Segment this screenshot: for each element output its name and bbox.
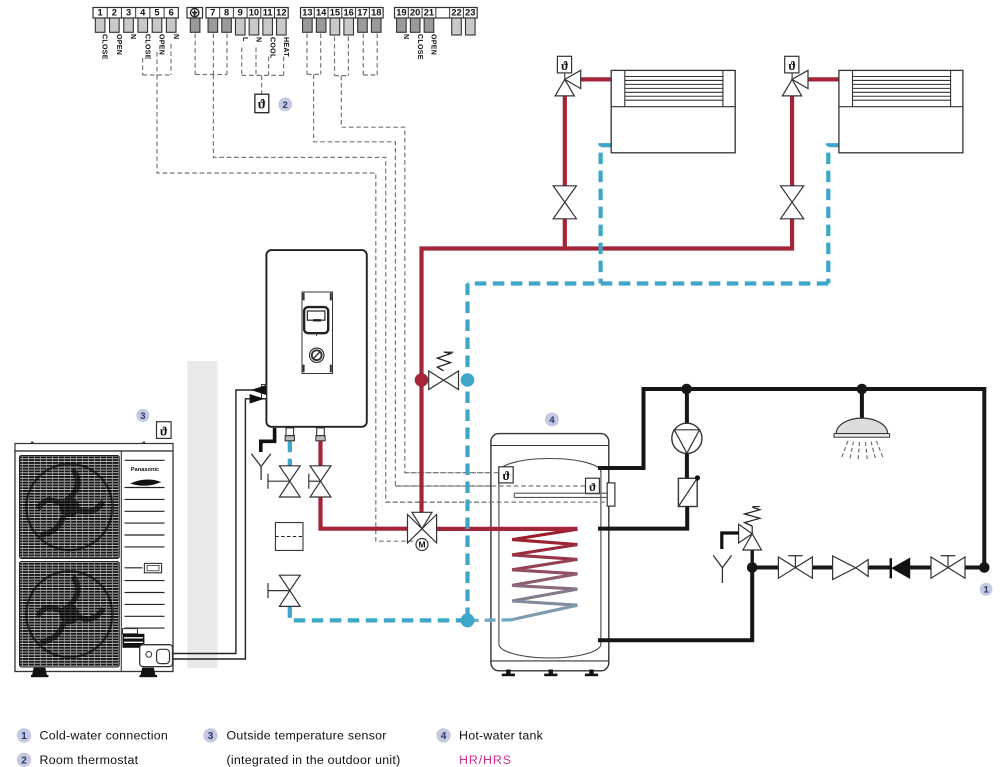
svg-text:3: 3 [126,8,131,18]
svg-text:N: N [172,34,179,39]
svg-text:HR/HRS: HR/HRS [459,753,512,767]
svg-text:5: 5 [154,8,159,18]
svg-text:ϑ: ϑ [502,469,510,483]
svg-text:8: 8 [224,8,229,18]
svg-text:4: 4 [549,415,555,426]
svg-text:1: 1 [98,8,103,18]
svg-text:N: N [402,34,409,39]
svg-text:11: 11 [263,8,273,18]
svg-text:OPEN: OPEN [158,34,165,55]
svg-text:1: 1 [21,731,27,742]
svg-text:12: 12 [276,8,286,18]
svg-text:19: 19 [396,8,406,18]
svg-text:3: 3 [208,731,214,742]
svg-text:CLOSE: CLOSE [101,34,108,60]
svg-text:ϑ: ϑ [561,59,569,73]
svg-text:2: 2 [283,100,288,111]
svg-text:(integrated in the outdoor uni: (integrated in the outdoor unit) [227,753,401,767]
svg-text:2: 2 [112,8,117,18]
svg-text:7: 7 [210,8,215,18]
svg-text:1: 1 [983,585,989,596]
svg-text:3: 3 [140,411,145,422]
svg-text:CLOSE: CLOSE [143,34,150,60]
svg-text:HEAT: HEAT [282,37,289,57]
svg-text:13: 13 [302,8,312,18]
svg-text:Cold-water connection: Cold-water connection [40,729,169,743]
svg-text:6: 6 [169,8,174,18]
svg-text:16: 16 [344,8,354,18]
svg-text:9: 9 [238,8,243,18]
svg-text:Hot-water tank: Hot-water tank [459,729,544,743]
svg-text:4: 4 [441,731,447,742]
svg-text:22: 22 [451,8,461,18]
svg-text:15: 15 [330,8,340,18]
svg-text:N: N [255,37,262,42]
svg-text:ϑ: ϑ [258,96,266,111]
svg-text:10: 10 [249,8,259,18]
svg-text:17: 17 [357,8,367,18]
svg-text:COOL: COOL [268,37,275,59]
svg-text:ϑ: ϑ [589,480,596,494]
svg-text:L: L [241,37,248,42]
svg-text:CLOSE: CLOSE [416,34,423,60]
svg-text:ϑ: ϑ [160,423,168,438]
svg-text:ϑ: ϑ [788,59,796,73]
svg-text:Outside temperature sensor: Outside temperature sensor [227,729,387,743]
svg-text:4: 4 [140,8,146,18]
svg-text:21: 21 [424,8,434,18]
svg-text:Room thermostat: Room thermostat [40,753,139,767]
svg-text:20: 20 [410,8,420,18]
svg-text:18: 18 [371,8,381,18]
svg-text:2: 2 [21,755,27,766]
svg-text:23: 23 [465,8,475,18]
svg-text:M: M [418,540,425,550]
svg-text:14: 14 [316,8,327,18]
svg-text:OPEN: OPEN [430,34,437,55]
svg-text:Panasonic: Panasonic [131,467,159,473]
svg-text:OPEN: OPEN [115,34,122,55]
svg-text:N: N [129,34,136,39]
